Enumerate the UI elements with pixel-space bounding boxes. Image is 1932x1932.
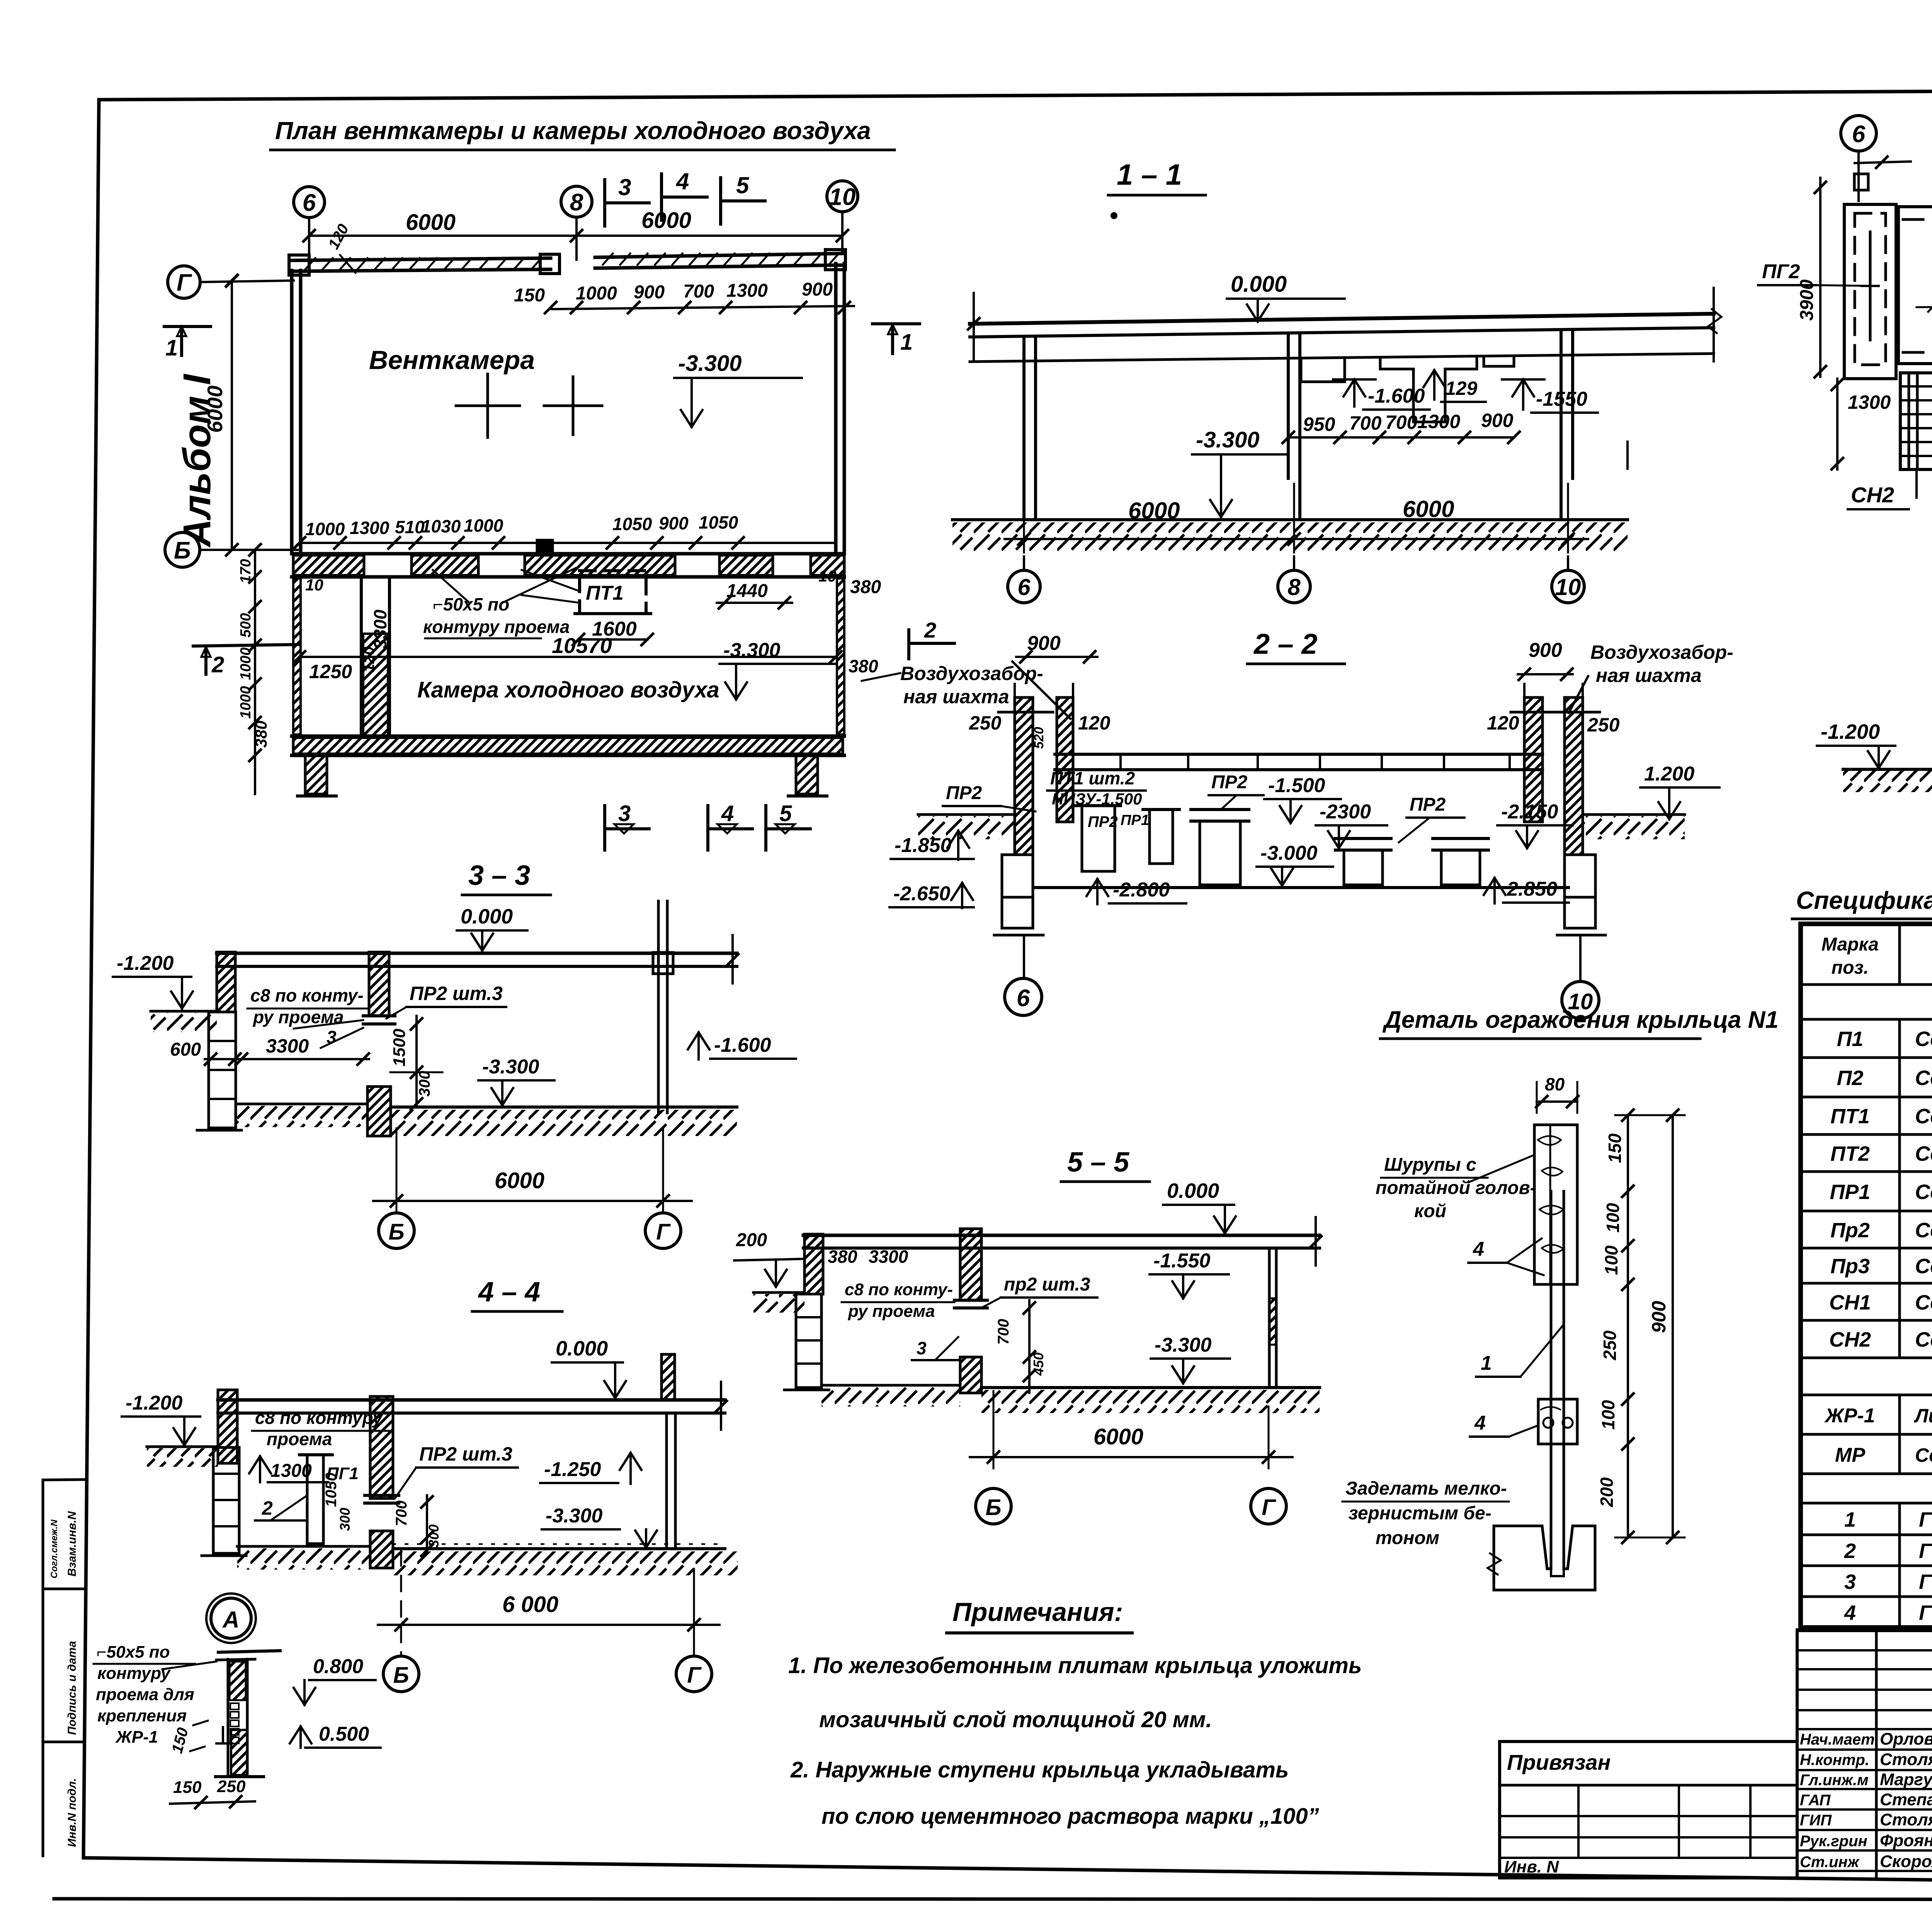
section 1-1 right end break [1713,288,1715,361]
detail A top flange [218,1651,280,1652]
svg-text:ру проема: ру проема [848,1302,935,1321]
detail A axis circle [211,1598,251,1638]
section 2-2 ground left [918,813,1015,816]
svg-text:Серия 1.138-10 вып.1: Серия 1.138-10 вып.1 [1915,1255,1932,1278]
svg-text:0.000: 0.000 [1167,1179,1219,1202]
section 6-6 ground left [1843,768,1932,771]
section 4-4 ground left room [237,1545,370,1548]
svg-text:Пр2: Пр2 [1830,1219,1870,1242]
section 4-4 floor ground hatch [393,1551,738,1575]
plan top wall corner posts [289,255,309,275]
svg-text:3: 3 [1844,1570,1856,1594]
svg-text:контуру проема: контуру проема [423,617,570,637]
svg-text:МР: МР [1835,1444,1865,1466]
svg-text:4 – 4: 4 – 4 [478,1277,540,1308]
svg-text:Серия 1.141-1 вып.60: Серия 1.141-1 вып.60 [1915,1066,1932,1090]
svg-text:Камера холодного воздуха: Камера холодного воздуха [417,677,719,702]
svg-text:мозаичный слой толщиной 20: мозаичный слой толщиной 20 мм. [819,1707,1212,1732]
svg-text:1030: 1030 [421,516,461,536]
svg-text:Скороход: Скороход [1880,1852,1932,1871]
plan axis circle Б [165,532,200,567]
svg-text:Орлов: Орлов [1880,1730,1932,1748]
section 5-5 down arrow left [775,1260,777,1287]
svg-text:8: 8 [1287,574,1301,600]
section 4-4 door frame [307,1455,323,1544]
porch left vertical dim 3900 [1819,178,1821,377]
svg-text:План венткамеры и камеры холод: План венткамеры и камеры холодного возду… [275,117,871,145]
svg-text:-3.300: -3.300 [1196,427,1259,452]
svg-text:520: 520 [1032,727,1046,749]
svg-text:6: 6 [1017,985,1030,1012]
plan axis cross 1 [456,405,520,407]
section 4-4 slab right end tick [720,1382,722,1430]
section 5-5 left foundation blocks [796,1294,821,1388]
svg-text:-2.650: -2.650 [893,883,951,905]
svg-text:5: 5 [779,801,792,826]
svg-text:250: 250 [1587,714,1620,736]
svg-text:А: А [222,1607,239,1633]
svg-text:1250: 1250 [309,661,352,682]
svg-text:ПР2: ПР2 [1088,813,1118,830]
svg-text:ПР2 шт.3: ПР2 шт.3 [410,983,503,1004]
svg-text:ПТ1: ПТ1 [1830,1105,1870,1128]
svg-text:ГИП: ГИП [1800,1812,1832,1829]
svg-text:Серия 1.138-10 вып.1: Серия 1.138-10 вып.1 [1915,1180,1932,1204]
section 1-1 ground line [952,518,1628,521]
svg-text:Пр3: Пр3 [1830,1255,1870,1278]
sheet border outer top [99,88,1932,100]
section 5-5 slab right end tick [1315,1217,1317,1265]
svg-text:Серия 1.255.1-1: Серия 1.255.1-1 [1915,1291,1932,1314]
section 4-4 dim 6000 [400,1550,402,1654]
porch dim 1300 [1836,379,1838,469]
svg-text:900: 900 [1027,632,1061,655]
svg-text:Маргулец: Маргулец [1880,1770,1932,1789]
plan section mark 2 left [193,645,299,646]
svg-text:ПР1: ПР1 [1121,812,1149,828]
section 5-5 vertical dims 700 450 [1028,1300,1031,1393]
section 5-5 axis circle Б [976,1488,1011,1524]
section 5-5 ground hatch [981,1390,1320,1413]
svg-text:10: 10 [305,576,323,594]
svg-text:ГОСТ 2591-71: ГОСТ 2591-71 [1919,1508,1932,1531]
plan section mark 5 bottom [764,806,767,850]
svg-text:1 – 1: 1 – 1 [1117,158,1182,191]
section 3-3 floor line [391,1105,737,1109]
svg-text:-3.300: -3.300 [1155,1334,1212,1356]
porch deck mid tick marks [1917,306,1932,307]
svg-text:пр2 шт.3: пр2 шт.3 [1004,1274,1090,1295]
svg-text:6000: 6000 [203,385,227,433]
porch axis circle 6 top [1841,116,1876,151]
svg-text:3300: 3300 [869,1247,908,1267]
svg-text:Столярова: Столярова [1880,1750,1932,1769]
svg-text:Марка: Марка [1821,934,1879,955]
svg-text:-1.600: -1.600 [1368,385,1425,407]
svg-text:1000: 1000 [464,515,503,536]
svg-text:600: 600 [170,1039,201,1060]
svg-text:5 – 5: 5 – 5 [1067,1147,1129,1178]
section 1-1 duct step C [1484,356,1514,366]
section 1-1 right ground tick [1626,442,1629,469]
section 4-4 ground left [147,1446,218,1448]
railing flat bar [1550,1191,1553,1566]
section 2-2 left shaft wall inner [1057,697,1073,822]
title block signature grid [1796,1630,1799,1877]
detail A angle bracket [222,1727,224,1743]
plan air shaft note leader [862,673,900,681]
plan dim 10570 [299,656,836,658]
svg-text:380: 380 [252,721,270,748]
svg-text:1. По железобетонным плитам: 1. По железобетонным плитам крыльца улож… [788,1653,1362,1678]
svg-text:П2: П2 [1837,1066,1864,1090]
svg-text:кой: кой [1414,1201,1446,1221]
svg-text:ная шахта: ная шахта [903,686,1009,707]
svg-text:200: 200 [736,1230,767,1250]
svg-text:-1.600: -1.600 [714,1034,771,1056]
section 3-3 axis circle Б [379,1213,414,1248]
svg-text:10: 10 [829,184,856,210]
section 4-4 axis circle Г [676,1656,712,1692]
svg-text:контуру: контуру [97,1664,171,1683]
plan bottom wall left leg [305,755,327,794]
svg-text:10570: 10570 [552,633,612,658]
svg-text:900: 900 [659,513,689,533]
section 4-4 floor line [393,1547,725,1550]
svg-text:2: 2 [924,618,936,642]
svg-text:0.500: 0.500 [319,1723,369,1745]
svg-text:-3.000: -3.000 [1260,842,1318,864]
svg-text:ЖР-1: ЖР-1 [1824,1405,1875,1427]
plan PT1 slab dashed [580,571,646,614]
section 2-2 axis circle 6 [1023,935,1025,977]
svg-text:1: 1 [900,330,913,355]
svg-text:700: 700 [1349,412,1382,434]
plan axis circle 10 [841,212,844,253]
section 4-4 right column [665,1413,668,1549]
plan bottom wall band [292,735,844,738]
svg-text:Серия 1.243.1-4: Серия 1.243.1-4 [1915,1105,1932,1128]
section 2-2 axis circle 10 [1579,935,1582,981]
svg-text:Серия 1.255.1-1: Серия 1.255.1-1 [1915,1328,1932,1351]
svg-text:1.200: 1.200 [1644,763,1694,785]
svg-text:2: 2 [1844,1539,1856,1563]
section 3-3 left outer ground [151,1010,217,1013]
plan top wall segment B [595,253,844,257]
plan left small dim chain [254,550,256,794]
svg-text:Лист 70: Лист 70 [1914,1405,1932,1427]
svg-text:6: 6 [1017,574,1031,600]
section 2-2 ground right [1583,813,1685,816]
svg-text:3300: 3300 [266,1035,309,1057]
svg-text:с8 по конту-: с8 по конту- [250,985,364,1005]
svg-text:ЖР-1: ЖР-1 [115,1728,158,1747]
porch left shaft outer [1844,204,1896,379]
svg-text:ПР1: ПР1 [1830,1180,1871,1204]
svg-text:-1.200: -1.200 [1821,720,1880,743]
svg-text:250: 250 [969,712,1002,734]
section 2-2 right shaft top lines [1523,684,1526,697]
section 2-2 small post pr1 [1150,810,1173,864]
svg-text:Серия 1.138-10 вып.1: Серия 1.138-10 вып.1 [1915,1219,1932,1242]
svg-text:100: 100 [1598,1400,1618,1430]
plan vertical dim 6000 [231,281,233,550]
svg-text:6000: 6000 [1403,496,1454,522]
svg-text:1: 1 [1481,1352,1492,1374]
svg-text:6000: 6000 [495,1168,544,1193]
section 3-3 middle wall upper [369,952,389,1016]
svg-text:СН2: СН2 [1829,1328,1871,1351]
section 1-1 duct step B [1380,356,1477,422]
section 3-3 left foundation blocks [209,1012,236,1128]
section 1-1 column axis 10 [1560,331,1563,520]
section 5-5 axis circle Г [1251,1488,1286,1524]
svg-text:проема для: проема для [96,1685,194,1704]
svg-text:Рук.грин: Рук.грин [1800,1833,1867,1850]
plan section mark 3 top [603,180,606,226]
railing embed break mark [1488,1553,1501,1575]
svg-text:-2.150: -2.150 [1501,801,1558,823]
svg-text:2. Наружные ступени крыльца: 2. Наружные ступени крыльца укладывать [790,1757,1289,1782]
svg-text:250: 250 [1600,1330,1620,1361]
svg-text:6000: 6000 [641,208,691,233]
plan grid dim line top [309,235,842,237]
svg-text:3: 3 [618,174,631,200]
plan section mark 1 left [164,325,211,328]
detail A base line [216,1775,264,1778]
section 2-2 pedestal 2 [1200,821,1240,885]
spec table vertical lines [1898,924,1901,985]
section 5-5 middle wall lower [960,1357,981,1393]
svg-text:1: 1 [1844,1508,1856,1531]
porch deck top dashed [1903,218,1932,221]
svg-text:Степанов: Степанов [1880,1790,1932,1809]
svg-text:П1: П1 [1837,1027,1864,1051]
section 2-2 right shaft wall outer [1565,697,1583,855]
svg-text:тоном: тоном [1376,1528,1439,1548]
section 3-3 roof slab [217,952,737,955]
svg-text:4: 4 [1844,1601,1856,1624]
svg-text:6 000: 6 000 [502,1592,558,1617]
plan note leaders to band [433,570,469,603]
svg-text:0.000: 0.000 [556,1337,608,1360]
svg-text:3: 3 [917,1338,927,1358]
svg-text:-1.500: -1.500 [1268,774,1325,797]
svg-text:-1.550: -1.550 [1153,1250,1211,1272]
porch left shaft inner lines [1869,232,1872,340]
railing lower wood block [1538,1399,1577,1444]
section 2-2 left shaft top lines [1014,684,1016,697]
svg-text:-1.200: -1.200 [117,952,174,975]
svg-text:-3.300: -3.300 [723,639,781,662]
svg-text:1000: 1000 [576,283,617,304]
svg-text:4: 4 [1474,1412,1486,1434]
svg-text:1000: 1000 [305,519,345,539]
railing dim 900 [1672,1115,1674,1537]
svg-text:Привязан: Привязан [1507,1750,1611,1774]
svg-text:Нач.мает.: Нач.мает. [1800,1731,1879,1748]
svg-text:4: 4 [676,168,689,194]
svg-text:4: 4 [1473,1238,1484,1260]
svg-text:ПГ2: ПГ2 [1762,260,1800,283]
svg-text:1300: 1300 [726,281,768,301]
svg-text:700: 700 [393,1500,410,1526]
svg-text:129: 129 [1445,378,1478,399]
svg-text:900: 900 [1648,1301,1670,1333]
spec table outer frame [1801,924,1932,1628]
svg-text:ГОСТ 3486-66: ГОСТ 3486-66 [1919,1601,1932,1624]
plan top wall segment A [292,258,551,260]
section 3-3 left room floor [236,1103,367,1105]
section 2-2 mark T2 [907,630,910,659]
svg-text:1050: 1050 [612,514,652,534]
section 4-4 left foundation blocks [213,1447,239,1553]
svg-text:-2.800: -2.800 [1113,879,1170,901]
section 2-2 left pedestal with ПР2 [1082,806,1115,871]
section 1-1 axis circle 8 [1293,556,1295,570]
section 3-3 dim 3300 [234,1058,369,1060]
section 1-1 axis circle 6 [1023,556,1025,570]
section 4-4 middle wall upper [370,1396,393,1498]
section 5-5 roof slab [803,1234,1320,1237]
section 1-1 column axis 8 [1287,335,1290,478]
svg-text:6000: 6000 [1128,498,1180,524]
svg-text:проема: проема [267,1429,332,1449]
svg-text:Инв. N: Инв. N [1504,1857,1559,1876]
porch left shaft top tick [1855,162,1911,163]
svg-text:80: 80 [1545,1074,1565,1094]
svg-text:900: 900 [1481,410,1514,431]
section 4-4 left parapet [218,1390,237,1463]
porch left shaft top box [1854,174,1868,190]
svg-text:ПТ1 шт.2: ПТ1 шт.2 [1050,768,1135,788]
svg-text:1300: 1300 [350,518,389,538]
svg-text:СН2: СН2 [1851,483,1894,507]
svg-text:380: 380 [849,656,878,676]
svg-text:1000: 1000 [238,686,254,719]
svg-text:4: 4 [721,801,734,826]
section 1-1 roof slab [970,314,1714,324]
svg-text:2.850: 2.850 [1507,878,1557,900]
section 2-2 pedestal 3 [1344,850,1383,885]
svg-text:0.000: 0.000 [1231,272,1287,297]
svg-text:ГАП: ГАП [1800,1792,1831,1809]
svg-text:Деталь ограждения крыльца N1: Деталь ограждения крыльца N1 [1382,1007,1779,1033]
svg-text:Н.контр.: Н.контр. [1800,1752,1869,1769]
svg-text:СН1: СН1 [1829,1291,1871,1314]
svg-text:ПТ2: ПТ2 [1830,1142,1870,1165]
section 5-5 right wall [1268,1248,1271,1388]
svg-text:поз.: поз. [1832,957,1869,978]
svg-text:0.800: 0.800 [313,1655,363,1678]
svg-text:Б: Б [985,1495,1001,1520]
svg-text:150: 150 [1605,1133,1625,1163]
svg-text:380: 380 [828,1247,857,1267]
svg-text:с8 по контуру: с8 по контуру [255,1408,383,1428]
svg-text:300: 300 [426,1524,442,1548]
plan bottom interior dim row [299,542,836,544]
svg-text:-1550: -1550 [1536,388,1587,410]
svg-text:10: 10 [1555,574,1581,600]
section 4-4 roof slab [218,1398,725,1402]
svg-text:Г: Г [1262,1495,1276,1520]
section 3-3 vertical dims 1500 300 [415,1016,418,1107]
svg-text:ПР2: ПР2 [1211,772,1248,793]
plan section mark 4 top [660,174,663,220]
svg-text:120: 120 [1078,712,1111,734]
section 5-5 floor line [981,1386,1320,1389]
svg-text:1440: 1440 [726,581,768,601]
section 2-2 right shaft wall inner [1524,697,1543,822]
svg-text:Серия 1.141-1 вып.60: Серия 1.141-1 вып.60 [1915,1027,1932,1051]
plan section mark 3 bottom [603,806,606,850]
plan right wall [834,264,838,554]
svg-text:Шурупы с: Шурупы с [1384,1155,1476,1175]
detail A wood packing [230,1662,246,1700]
plan section mark 1 right [872,322,920,325]
svg-text:-3.300: -3.300 [482,1056,539,1078]
svg-text:Б: Б [174,537,191,564]
plan left wall [290,270,294,554]
plan lower band top wall with piers [292,552,844,556]
svg-text:1: 1 [165,335,178,361]
svg-text:1050: 1050 [323,1473,340,1507]
svg-text:100: 100 [1603,1203,1623,1233]
plan top wall small dim row [551,306,854,309]
section 3-3 left parapet wall [217,952,235,1012]
sheet border bottom [83,1858,1932,1889]
section 4-4 dims 1300 1050 300 [259,1456,261,1482]
section 1-1 duct step A [1301,358,1345,382]
section 4-4 right column upper [662,1354,675,1400]
section 3-3 floor ground hatch [391,1110,737,1136]
svg-text:Серия ИИ-03-03альб.71-64: Серия ИИ-03-03альб.71-64 [1915,1444,1932,1466]
svg-text:Серия 1.243.1-4: Серия 1.243.1-4 [1915,1142,1932,1165]
section 5-5 middle wall upper [960,1229,981,1300]
svg-text:-1.200: -1.200 [126,1392,183,1414]
sheet border left [83,100,99,1858]
plan dim 1440 [717,602,792,604]
svg-text:3900: 3900 [1797,279,1817,321]
svg-text:300: 300 [416,1071,433,1097]
section 2-2 right lower box [1565,855,1595,897]
svg-text:-1.850: -1.850 [895,834,952,857]
porch left shaft dashed inner [1855,213,1886,365]
section 3-3 middle wall lower [367,1087,391,1136]
svg-text:Инв.N подл.: Инв.N подл. [66,1778,78,1847]
svg-text:2: 2 [262,1497,273,1519]
svg-text:ПР2: ПР2 [946,783,982,803]
svg-text:510: 510 [395,517,425,537]
svg-text:300: 300 [337,1508,353,1531]
railing dim chain [1627,1115,1629,1537]
porch stairs side rails [1908,373,1910,469]
svg-text:2 – 2: 2 – 2 [1253,628,1318,660]
section 2-2 floor line [1035,886,1568,889]
left stamp column box [42,1480,44,1856]
plan lower band pier joint lines [363,554,365,577]
section 2-2 dim 900 left [1016,656,1097,658]
svg-text:с8 по конту-: с8 по конту- [845,1280,953,1299]
plan bottom wall right leg [796,755,818,794]
plan right wall outer hatch [837,578,844,735]
sheet bottom edge line [54,1899,1932,1900]
svg-text:Столярова: Столярова [1880,1810,1932,1829]
svg-text:150: 150 [173,1778,202,1797]
svg-text:крепления: крепления [97,1706,187,1725]
plan section mark 4 bottom [706,806,709,850]
svg-text:1300: 1300 [270,1461,312,1481]
